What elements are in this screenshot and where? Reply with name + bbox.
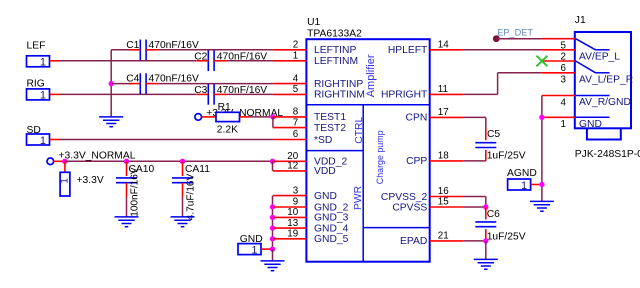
svg-text:CPVSS_2: CPVSS_2	[381, 192, 428, 203]
pin 10 GND_3	[273, 207, 349, 224]
svg-text:12: 12	[287, 161, 298, 172]
node GND junction y228	[270, 225, 275, 230]
capacitor C4 470nF/16V	[126, 73, 199, 94]
node GND junction y217	[270, 215, 275, 220]
J1 pin 2 AV/EP_L	[542, 50, 620, 63]
pin 14 HPLEFT	[388, 40, 464, 57]
svg-text:14: 14	[438, 40, 449, 51]
wire gnd vertical input caps	[111, 50, 132, 117]
svg-text:16: 16	[438, 186, 449, 197]
port LEF	[27, 41, 50, 69]
svg-text:15: 15	[438, 197, 449, 208]
ground CA11	[171, 217, 195, 227]
svg-text:*SD: *SD	[314, 135, 332, 146]
svg-text:100nF/16V: 100nF/16V	[129, 167, 140, 217]
svg-text:J1: J1	[575, 15, 586, 26]
svg-text:EPAD: EPAD	[400, 236, 427, 247]
section label Charge pump	[375, 130, 385, 184]
svg-text:4: 4	[293, 73, 299, 84]
node AGND junction	[539, 182, 544, 187]
svg-text:8: 8	[293, 107, 299, 118]
svg-text:1: 1	[40, 135, 46, 147]
svg-text:HPLEFT: HPLEFT	[388, 45, 428, 56]
svg-text:7: 7	[293, 117, 298, 128]
wire RIG to C3	[60, 93, 197, 95]
svg-text:VDD: VDD	[314, 166, 336, 177]
wire HPRIGHT bend	[463, 73, 542, 95]
wire rail	[65, 160, 273, 162]
node J1 pin1 junction	[539, 115, 544, 120]
op-amp U1 TPA6133A2 body	[306, 17, 429, 262]
pin 12 VDD	[273, 161, 336, 178]
svg-text:3: 3	[293, 185, 299, 196]
pin 19 GND_5	[273, 229, 349, 246]
svg-text:2: 2	[293, 40, 298, 51]
svg-text:3: 3	[561, 75, 567, 86]
svg-text:CTRL: CTRL	[354, 116, 365, 143]
capacitor C5 1uF/25V	[475, 129, 525, 161]
wire J1 pin4 to AGND	[541, 96, 543, 202]
pin 16 CPVSS_2	[381, 186, 463, 203]
svg-text:GND_2: GND_2	[314, 202, 349, 213]
svg-text:1: 1	[40, 57, 46, 69]
node CPVSS junction	[483, 204, 488, 209]
no-connect X on J1 pin6	[536, 56, 547, 67]
pin 5 RIGHTINM	[273, 84, 365, 101]
node EPAD junction	[483, 238, 488, 243]
svg-text:18: 18	[438, 151, 449, 162]
wire GND ladder	[272, 196, 274, 250]
section label CTRL	[354, 116, 365, 143]
svg-text:CPN: CPN	[406, 113, 428, 124]
svg-text:RIGHTINP: RIGHTINP	[314, 79, 363, 90]
svg-text:19: 19	[287, 229, 298, 240]
svg-text:1: 1	[40, 90, 46, 102]
ground AGND	[530, 201, 554, 211]
svg-text:2.2K: 2.2K	[217, 125, 238, 136]
svg-text:Charge pump: Charge pump	[375, 130, 385, 184]
svg-text:RIGHTINM: RIGHTINM	[314, 90, 365, 101]
svg-text:GND_4: GND_4	[314, 223, 349, 234]
svg-text:GND_3: GND_3	[314, 213, 349, 224]
svg-text:17: 17	[438, 107, 449, 118]
J1 switch contact pin5	[576, 39, 610, 50]
svg-text:C4: C4	[126, 74, 139, 85]
wire +3.3V port drop	[64, 161, 66, 172]
wire CPVSS_2 bend	[463, 197, 485, 208]
pin 7 TEST2	[273, 117, 346, 134]
svg-text:C3: C3	[194, 85, 207, 96]
wire GND to ground	[272, 249, 274, 261]
svg-text:1: 1	[521, 180, 527, 192]
J1 contact pin1	[576, 116, 610, 118]
wire C1 to LEFTINP	[159, 49, 273, 51]
pin 4 RIGHTINP	[273, 73, 363, 90]
svg-text:CPP: CPP	[406, 156, 427, 167]
port AGND	[507, 168, 537, 192]
capacitor C6 1uF/25V	[475, 209, 525, 242]
node +3.3V junction	[62, 159, 67, 164]
svg-text:10: 10	[287, 207, 298, 218]
svg-text:21: 21	[438, 231, 449, 242]
power port +3.3V_NORMAL at R1	[195, 108, 284, 120]
svg-text:6: 6	[293, 129, 299, 140]
ground GND port	[261, 261, 285, 271]
svg-text:TPA6133A2: TPA6133A2	[307, 29, 362, 40]
wire VDD drop	[272, 161, 274, 171]
port +3.3V vertical	[59, 172, 103, 196]
wire to TEST2	[272, 117, 274, 128]
pin 11 HPRIGHT	[381, 84, 463, 101]
wire CPVSS	[463, 206, 485, 208]
connector J1 PJK-248S1P-0 body	[575, 15, 640, 160]
power port +3.3V_NORMAL rail	[47, 151, 136, 165]
node GND junction y238	[270, 236, 275, 241]
svg-text:R1: R1	[218, 102, 231, 113]
wire CPN to C5	[463, 117, 485, 140]
svg-text:1: 1	[293, 51, 298, 62]
wire LEF stub	[50, 60, 60, 62]
svg-text:HPRIGHT: HPRIGHT	[381, 90, 428, 101]
pin 8 TEST1	[273, 107, 346, 124]
pin 13 GND_4	[273, 218, 349, 235]
svg-text:11: 11	[438, 84, 448, 95]
svg-text:C2: C2	[194, 51, 207, 62]
node CA10 junction	[124, 159, 129, 164]
wire HPLEFT to J1 pin2	[463, 49, 542, 51]
capacitor CA11 4.7uF/16V	[172, 161, 210, 220]
pin 6 *SD	[273, 129, 332, 146]
J1 pin 4 AV_R/GND	[542, 96, 631, 109]
J1 pin 1 GND	[542, 117, 602, 130]
svg-text:1: 1	[251, 244, 257, 256]
svg-text:Amplifier: Amplifier	[365, 54, 377, 97]
resistor R1 2.2K	[202, 102, 251, 136]
capacitor C2 470nF/16V	[194, 51, 267, 72]
svg-text:C1: C1	[126, 40, 139, 51]
wire LEF to C2	[60, 60, 197, 62]
pin 18 CPP	[406, 151, 463, 168]
J1 pin 6	[542, 61, 575, 74]
pin 9 GND_2	[273, 197, 349, 214]
node TEST junction	[270, 114, 275, 119]
port GND	[238, 234, 263, 257]
J1 pin 3 AV_L/EP_R	[542, 73, 633, 86]
svg-text:LEFTINP: LEFTINP	[314, 45, 356, 56]
wire C5 to CPP	[463, 150, 485, 161]
svg-text:EP_DET: EP_DET	[497, 28, 533, 38]
net label EP_DET	[493, 28, 534, 43]
capacitor C1 470nF/16V	[126, 40, 199, 61]
pin 2 LEFTINP	[273, 40, 357, 57]
ground input caps	[99, 117, 123, 127]
J1 switch contact pin6	[576, 61, 610, 73]
svg-text:13: 13	[287, 218, 298, 229]
pin 3 GND	[273, 185, 337, 202]
svg-text:AV_R/GND: AV_R/GND	[579, 97, 631, 108]
capacitor C3 470nF/16V	[194, 84, 267, 105]
svg-text:5: 5	[293, 84, 299, 95]
pin 15 CPVSS	[392, 197, 463, 214]
node CA11 junction	[180, 159, 185, 164]
svg-text:CPVSS: CPVSS	[392, 202, 427, 213]
svg-text:U1: U1	[307, 17, 320, 28]
svg-text:GND: GND	[579, 119, 602, 130]
svg-text:TEST1: TEST1	[314, 112, 346, 123]
node VDD junction	[270, 159, 275, 164]
pin 17 CPN	[406, 107, 464, 124]
svg-text:RIG: RIG	[27, 79, 45, 90]
wire C3 to RIGHTINM	[227, 93, 273, 95]
wire RIG stub	[50, 93, 60, 95]
svg-text:AGND: AGND	[507, 168, 537, 179]
node GND port junction	[270, 246, 275, 251]
svg-text:GND: GND	[314, 191, 337, 202]
wire EP_DET to J1 pin5	[496, 38, 542, 40]
svg-text:SD: SD	[27, 125, 41, 136]
svg-text:+3.3V: +3.3V	[77, 175, 104, 186]
wire GND port stub	[261, 248, 270, 250]
node GND junction y207	[270, 204, 275, 209]
J1 contact pin4	[576, 95, 610, 97]
svg-text:1uF/25V: 1uF/25V	[487, 150, 526, 161]
svg-text:9: 9	[293, 197, 298, 208]
svg-text:GND: GND	[240, 234, 263, 245]
svg-text:LEFTINM: LEFTINM	[314, 56, 358, 67]
svg-text:PWR: PWR	[353, 186, 364, 210]
wire SD to pin6	[60, 139, 273, 141]
ground CA10	[115, 217, 139, 227]
section label PWR	[353, 186, 364, 210]
wire to C6	[485, 207, 487, 220]
svg-text:AV/EP_L: AV/EP_L	[579, 52, 620, 63]
pin 20 VDD_2	[273, 151, 348, 168]
node C4 gnd junction	[109, 81, 132, 86]
svg-text:LEF: LEF	[27, 41, 46, 52]
wire SD stub	[50, 139, 60, 141]
svg-text:TEST2: TEST2	[314, 123, 346, 134]
wire C2 to LEFTINM	[227, 60, 273, 62]
svg-text:1: 1	[561, 119, 566, 130]
svg-text:C6: C6	[487, 209, 500, 220]
wire R1 to TEST1	[250, 116, 273, 118]
port RIG	[27, 79, 50, 102]
svg-text:GND_5: GND_5	[314, 234, 349, 245]
svg-text:4: 4	[561, 97, 567, 108]
capacitor CA10 100nF/16V	[116, 161, 155, 217]
svg-text:C5: C5	[487, 129, 500, 140]
J1 pin 5	[542, 39, 575, 52]
wire EPAD to ground	[485, 241, 487, 260]
svg-text:4.7uF/16V: 4.7uF/16V	[185, 173, 196, 220]
svg-text:CA11: CA11	[185, 164, 210, 175]
ground EPAD	[474, 259, 498, 269]
wire C4 to RIGHTINP	[159, 83, 273, 85]
wire rail stub	[54, 160, 65, 162]
pin 21 EPAD	[400, 231, 463, 248]
svg-text:1uF/25V: 1uF/25V	[487, 231, 526, 242]
svg-text:1: 1	[59, 178, 70, 183]
pin 1 LEFTINM	[273, 51, 358, 68]
section label Amplifier	[365, 54, 377, 97]
wire AGND stub	[531, 184, 539, 186]
svg-text:PJK-248S1P-02: PJK-248S1P-02	[575, 149, 640, 160]
svg-text:AV_L/EP_R: AV_L/EP_R	[579, 75, 633, 86]
port SD	[27, 125, 50, 147]
wire C6 to EPAD	[463, 229, 485, 241]
